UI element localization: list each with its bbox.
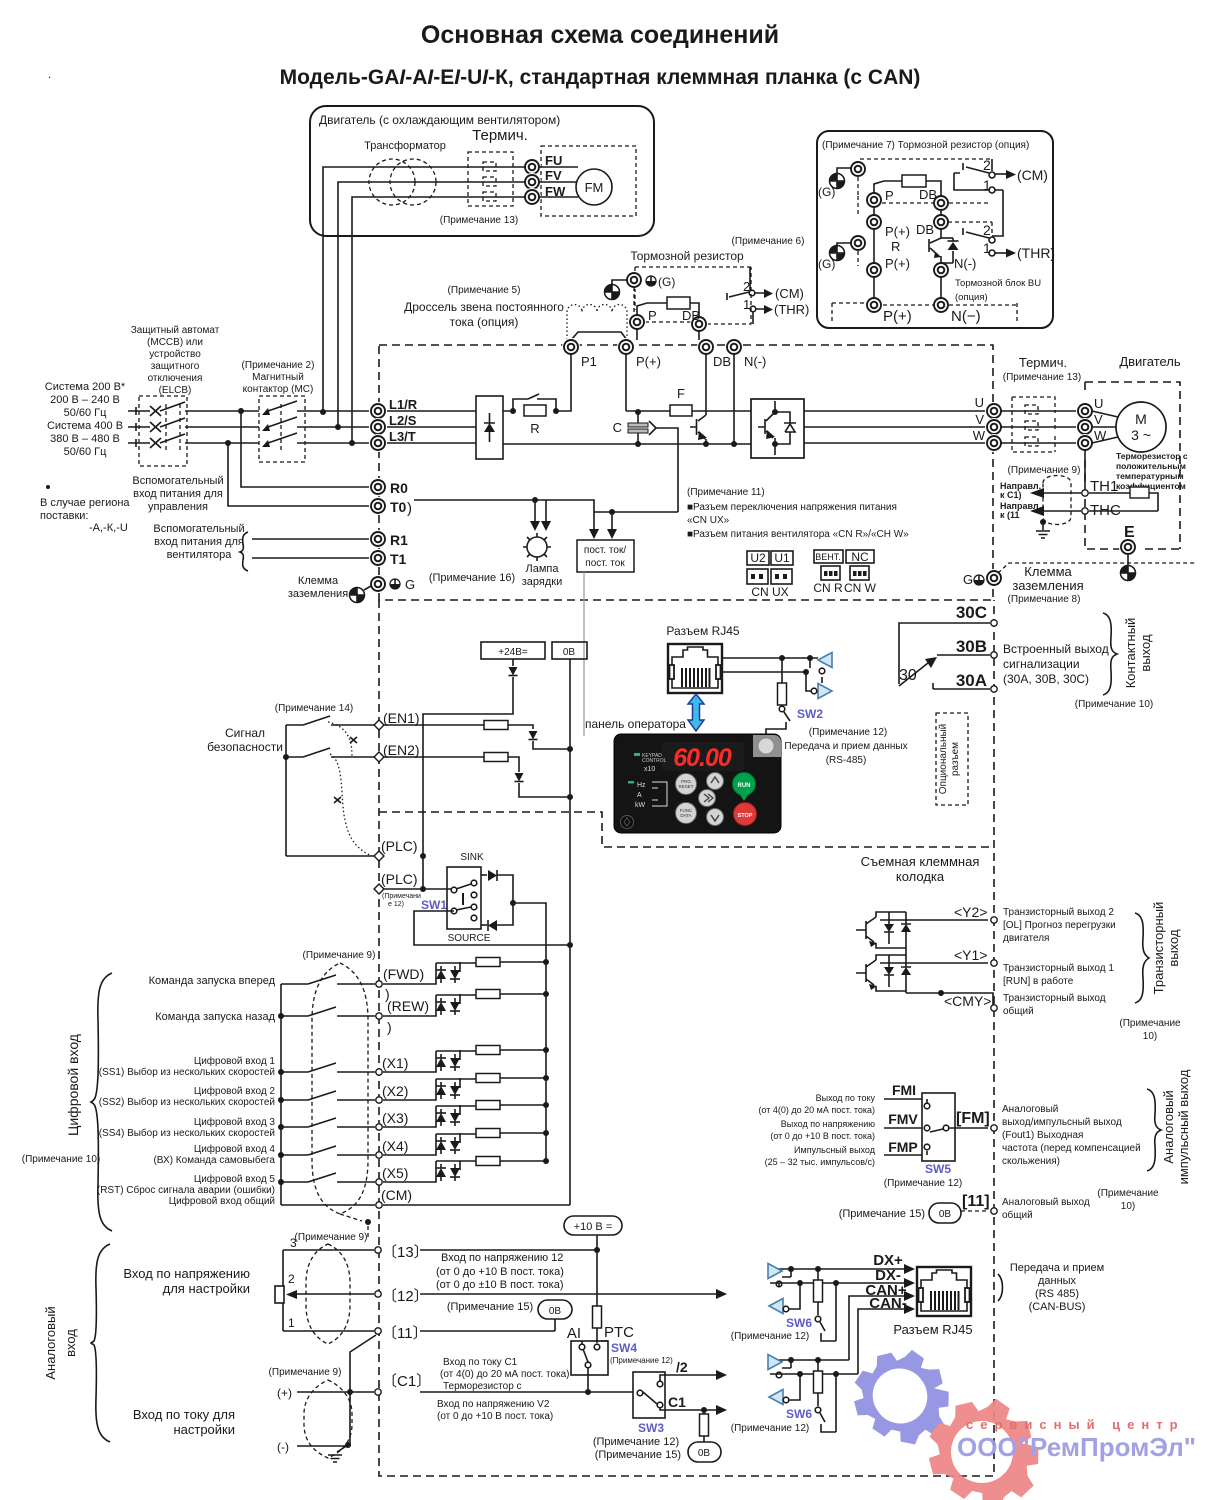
- svg-text:ВЕНТ.: ВЕНТ.: [815, 552, 841, 562]
- svg-text:Клемма: Клемма: [1024, 564, 1072, 579]
- top dashed bus: [860, 158, 990, 160]
- terminal P(+)a: [865, 213, 883, 231]
- svg-text:[FM]: [FM]: [956, 1110, 990, 1127]
- svg-text:сервисный центр: сервисный центр: [966, 1417, 1185, 1432]
- wire DX+: [770, 1264, 915, 1274]
- 0V rail: [569, 659, 571, 1205]
- FWD opto circuit: [383, 958, 549, 985]
- svg-text:10): 10): [1121, 1201, 1135, 1212]
- SW5 box: [884, 1093, 988, 1161]
- terminal CMY: [991, 1005, 997, 1011]
- terminal DB m: [690, 315, 708, 333]
- svg-text:Транзисторный выход 2: Транзисторный выход 2: [1003, 907, 1114, 918]
- RJ45 jack top: [668, 644, 722, 693]
- svg-text:(Примечание 9): (Примечание 9): [1008, 465, 1081, 476]
- terminal P m: [628, 313, 646, 331]
- SW6 group 1: [768, 1264, 836, 1342]
- label Цифровой вход 2: [99, 1085, 276, 1108]
- svg-text:50/60 Гц: 50/60 Гц: [64, 446, 108, 458]
- wire DX-: [770, 1278, 915, 1288]
- svg-text:пост. ток/: пост. ток/: [584, 545, 626, 556]
- inverter box: [751, 399, 804, 458]
- terminal P1: [562, 338, 580, 356]
- terminal PLC1: [374, 851, 384, 861]
- svg-text:T0: T0: [390, 499, 407, 515]
- brace transistor output: [1135, 913, 1149, 1003]
- svg-text:(X3): (X3): [382, 1110, 408, 1126]
- ground m: [605, 280, 628, 300]
- svg-text:SW1: SW1: [421, 898, 447, 912]
- asterisk mark: [46, 485, 50, 489]
- SINK/SOURCE switch SW1: [447, 852, 491, 944]
- svg-text:Лампа: Лампа: [526, 563, 560, 575]
- terminal FM: [991, 1125, 997, 1131]
- X1 opto circuit: [383, 1046, 549, 1073]
- svg-text:Встроенный выход: Встроенный выход: [1003, 642, 1109, 656]
- svg-text:(G): (G): [658, 275, 675, 289]
- 0V stadium FM: [929, 1203, 988, 1223]
- svg-text:(CAN-BUS): (CAN-BUS): [1029, 1301, 1086, 1313]
- svg-text:колодка: колодка: [896, 869, 945, 884]
- left texts FM: [758, 1093, 875, 1167]
- rectifier box: [476, 396, 503, 459]
- svg-text:P(+): P(+): [885, 224, 910, 239]
- svg-text:(Примечание 6): (Примечание 6): [732, 236, 805, 247]
- svg-text:FMI: FMI: [892, 1082, 916, 1098]
- svg-text:V: V: [975, 412, 984, 427]
- svg-text:импульсный выход: импульсный выход: [1176, 1069, 1191, 1184]
- connector CN R sockets: [813, 566, 843, 595]
- optional connector dashed box: [936, 713, 968, 805]
- svg-text:Основная схема соединений: Основная схема соединений: [421, 21, 779, 49]
- svg-text:Модель-GAI-АI-ЕI-UI-К, стандар: Модель-GAI-АI-ЕI-UI-К, стандартная клемм…: [280, 66, 921, 89]
- wires brake option drops: [637, 329, 699, 340]
- terminal P(+)b: [865, 261, 883, 279]
- relay 30: [899, 623, 990, 689]
- svg-text:(SS2) Выбор из нескольких скор: (SS2) Выбор из нескольких скоростей: [99, 1096, 275, 1108]
- svg-text:〔11〕: 〔11〕: [382, 1325, 428, 1342]
- potentiometer: [275, 1250, 374, 1331]
- transistor BU chopper: [929, 229, 941, 263]
- wire W2 down to TH: [1084, 450, 1086, 486]
- note под PLC: [382, 893, 421, 908]
- label Аналоговый импульсный выход vertical: [1161, 1069, 1191, 1184]
- svg-text:PTC: PTC: [604, 1324, 634, 1341]
- svg-text:поставки:: поставки:: [40, 510, 88, 522]
- label Вход по току C1: [440, 1357, 570, 1392]
- terminal PLC2: [374, 884, 384, 894]
- svg-text:В случае региона: В случае региона: [40, 497, 130, 509]
- label Y1 function: [1003, 963, 1114, 987]
- wire P to P(+)a: [874, 207, 941, 215]
- svg-text:(Примечание 9): (Примечание 9): [295, 1232, 368, 1243]
- svg-text:(RS-485): (RS-485): [826, 755, 867, 766]
- terminal U2: [1076, 402, 1094, 420]
- SW6 group 2: [768, 1355, 858, 1433]
- svg-text:частота (перед компенсацией: частота (перед компенсацией: [1002, 1143, 1141, 1154]
- dashed bus P-DB: [882, 202, 991, 204]
- terminal N(-) bottom: [932, 296, 950, 314]
- svg-text:G: G: [405, 577, 415, 592]
- svg-text:Магнитный: Магнитный: [252, 372, 304, 383]
- svg-text:(от 0 до +10 В пост. тока): (от 0 до +10 В пост. тока): [436, 1266, 564, 1278]
- X5 opto circuit: [383, 1157, 549, 1183]
- svg-text:380 В – 480 В: 380 В – 480 В: [50, 433, 120, 445]
- svg-text:Передача и прием данных: Передача и прием данных: [784, 741, 907, 752]
- safety switches: [283, 716, 375, 856]
- DC bus top: [503, 410, 751, 412]
- svg-text:kW: kW: [635, 802, 646, 809]
- dashed link2: [857, 196, 859, 266]
- thermal relay right dashed: [1012, 397, 1055, 452]
- svg-text:Цифровой вход общий: Цифровой вход общий: [169, 1195, 275, 1207]
- svg-text:-А,-К,-U: -А,-К,-U: [89, 522, 128, 534]
- transformer T (two dashed circles): [369, 159, 436, 205]
- terminal X5: [278, 1165, 408, 1185]
- svg-text:Цифровой вход: Цифровой вход: [65, 1034, 81, 1136]
- svg-text:F: F: [677, 386, 685, 401]
- svg-text:DB: DB: [713, 354, 731, 369]
- R bypass resistor: [510, 394, 559, 436]
- terminal 30A: [991, 686, 997, 692]
- EN2 input circuit: [383, 753, 573, 801]
- svg-text:L1/R: L1/R: [389, 397, 418, 412]
- svg-text:Транзисторный выход: Транзисторный выход: [1003, 993, 1106, 1004]
- label Защитный автомат MCCB: [131, 325, 220, 396]
- svg-text:Тормозной блок BU: Тормозной блок BU: [955, 278, 1041, 289]
- note (Примечание 10) transistor: [1119, 1018, 1181, 1042]
- shield drain analog: [328, 1335, 376, 1462]
- switch 2/1 upper (CM): [963, 157, 1048, 183]
- svg-text:(X2): (X2): [382, 1083, 408, 1099]
- svg-text:0В: 0В: [698, 1448, 711, 1459]
- terminal 30C: [991, 620, 997, 626]
- svg-text:(G): (G): [818, 257, 835, 271]
- svg-text:Транзисторный выход 1: Транзисторный выход 1: [1003, 963, 1114, 974]
- svg-text:общий: общий: [1002, 1209, 1033, 1221]
- svg-text:к (11: к (11: [1000, 510, 1020, 520]
- svg-text:30: 30: [899, 667, 917, 684]
- svg-text:3: 3: [290, 1236, 297, 1250]
- svg-text:1: 1: [743, 297, 750, 312]
- label Транзисторный выход vertical: [1151, 902, 1181, 995]
- svg-text:N(-): N(-): [744, 354, 766, 369]
- svg-text:2: 2: [983, 222, 991, 238]
- svg-text:1: 1: [288, 1316, 295, 1330]
- svg-text:DATA: DATA: [680, 813, 691, 818]
- svg-text:(ВХ) Команда самовыбега: (ВХ) Команда самовыбега: [153, 1154, 275, 1166]
- svg-text:Аналоговый выход: Аналоговый выход: [1002, 1197, 1090, 1208]
- choke coil dotted: [567, 305, 627, 340]
- label Вход по напряжению для настройки: [123, 1266, 250, 1296]
- svg-text:200 В – 240 В: 200 В – 240 В: [50, 394, 120, 406]
- svg-text:FMV: FMV: [888, 1111, 918, 1127]
- dashed drop from Gm: [633, 287, 635, 315]
- terminal E: [1119, 524, 1137, 581]
- connector NC: [846, 550, 874, 564]
- svg-text:0В: 0В: [563, 647, 576, 658]
- svg-text:RUN: RUN: [738, 783, 751, 789]
- svg-text:(Примечание 9): (Примечание 9): [269, 1367, 342, 1378]
- PLC wiring: [286, 853, 451, 892]
- label Вход по напряжению V2: [437, 1399, 553, 1422]
- svg-text:(CM): (CM): [775, 286, 804, 301]
- svg-text:Вход по току для: Вход по току для: [133, 1407, 235, 1422]
- svg-text:L3/T: L3/T: [389, 429, 416, 444]
- aux power wires to R0 T0: [228, 411, 369, 506]
- svg-text:коэффициентом: коэффициентом: [1116, 481, 1186, 491]
- label Система 200 В: [45, 381, 126, 458]
- svg-text:температурным: температурным: [1116, 471, 1184, 481]
- label thermistor: [1116, 451, 1188, 491]
- label Цифровой вход 4: [153, 1143, 275, 1166]
- terminal T0: [369, 497, 387, 515]
- terminal X2: [278, 1083, 408, 1103]
- input wires L3 row: [128, 433, 369, 448]
- P1 drop: [556, 354, 571, 411]
- svg-text:настройки: настройки: [173, 1422, 235, 1437]
- svg-text:Терморезистор с: Терморезистор с: [443, 1381, 522, 1392]
- 0V stadium 12: [538, 1300, 572, 1331]
- svg-text:M: M: [1135, 411, 1147, 427]
- svg-text:(THR): (THR): [1017, 245, 1055, 261]
- svg-text:(Примечание 12): (Примечание 12): [731, 1331, 809, 1342]
- terminal FWD: [281, 966, 424, 1002]
- svg-text:(Примечание 15): (Примечание 15): [839, 1208, 925, 1220]
- svg-text:(EN1): (EN1): [383, 710, 420, 726]
- terminal X3: [278, 1110, 408, 1130]
- MCCB dashed box: [139, 396, 187, 466]
- svg-text:(ELCB): (ELCB): [159, 385, 192, 396]
- DC/DC arrows: [589, 509, 617, 539]
- terminal DBa: [932, 213, 950, 231]
- svg-text:T1: T1: [390, 551, 407, 567]
- svg-text:〔13〕: 〔13〕: [382, 1244, 429, 1261]
- terminal FV: [523, 173, 541, 191]
- label Контактный выход vertical: [1123, 618, 1153, 689]
- svg-text:(Примечани: (Примечани: [382, 893, 421, 900]
- note (Примечание 10) analog out: [1097, 1188, 1159, 1212]
- svg-text:безопасности: безопасности: [207, 740, 283, 754]
- label Цифровой вход 3: [99, 1116, 276, 1139]
- svg-text:+10 В =: +10 В =: [574, 1221, 613, 1233]
- brace digital input: [91, 973, 112, 1231]
- brace contact output: [1103, 613, 1117, 695]
- svg-text:(Примечание 12): (Примечание 12): [731, 1423, 809, 1434]
- wires to R1 T1: [252, 539, 369, 558]
- svg-text:SW6: SW6: [786, 1407, 812, 1421]
- removable terminal block dashed boundary: [379, 812, 993, 847]
- svg-text:(от 0 до +10 В пост. тока): (от 0 до +10 В пост. тока): [770, 1131, 875, 1141]
- svg-text:DB: DB: [919, 187, 937, 202]
- svg-text:DB: DB: [682, 308, 700, 323]
- svg-text:L2/S: L2/S: [389, 413, 417, 428]
- label Передача и прием данных: [1010, 1262, 1104, 1313]
- svg-text:2: 2: [288, 1272, 295, 1286]
- svg-text:[OL] Прогноз перегрузки: [OL] Прогноз перегрузки: [1003, 920, 1116, 931]
- svg-text:[RUN] в работе: [RUN] в работе: [1003, 975, 1074, 987]
- svg-text:Аналоговый: Аналоговый: [43, 1306, 58, 1379]
- svg-text:30В: 30В: [956, 637, 987, 656]
- svg-text:R: R: [530, 421, 539, 436]
- svg-text:(Примечание 15): (Примечание 15): [447, 1301, 533, 1313]
- svg-text:вход питания для: вход питания для: [133, 488, 223, 500]
- svg-text:(Примечание 12): (Примечание 12): [809, 727, 887, 738]
- svg-text:(EN2): (EN2): [383, 742, 420, 758]
- svg-text:〔C1〕: 〔C1〕: [382, 1373, 431, 1390]
- arrows Направл: [1000, 481, 1081, 520]
- terminal R0: [369, 478, 387, 496]
- terminal X1: [278, 1055, 408, 1075]
- connector CN UX sockets: [747, 569, 792, 599]
- label FM function: [1002, 1104, 1141, 1167]
- terminal T1: [369, 549, 387, 567]
- label Сигнал безопасности: [207, 726, 283, 754]
- svg-text:SW5: SW5: [925, 1162, 951, 1176]
- svg-text:(Примечание: (Примечание: [1119, 1018, 1181, 1029]
- blue gear: [854, 1350, 949, 1445]
- svg-text:(от 4(0) до 20 мА пост. тока): (от 4(0) до 20 мА пост. тока): [440, 1369, 570, 1380]
- svg-text:Транзисторный: Транзисторный: [1151, 902, 1166, 995]
- SW4 box: [567, 1324, 634, 1392]
- ground terminal G right: [963, 569, 1003, 587]
- svg-text:): ): [387, 1019, 392, 1035]
- terminal TH1: [1082, 490, 1088, 496]
- svg-text:(RST) Сброс сигнала аварии (ош: (RST) Сброс сигнала аварии (ошибки): [97, 1184, 275, 1196]
- connector U2: [747, 551, 769, 565]
- wires fan feeders: [323, 167, 525, 443]
- svg-text:защитного: защитного: [151, 361, 200, 372]
- wire CAN+: [849, 1291, 915, 1360]
- wire 13 to +10V: [420, 1247, 600, 1253]
- dashed klemma line: [998, 563, 1195, 573]
- label Съемная клеммная колодка: [861, 854, 980, 884]
- svg-text:■Разъем питания вентилятора «C: ■Разъем питания вентилятора «CN R»/«CH W…: [687, 529, 909, 540]
- shield oval analog2: [304, 1380, 352, 1458]
- svg-text:P(+): P(+): [885, 256, 910, 271]
- svg-text:<CMY>: <CMY>: [944, 993, 991, 1009]
- wires fan to FM: [539, 167, 578, 197]
- svg-text:Аналоговый: Аналоговый: [1002, 1104, 1058, 1115]
- terminal FU: [523, 158, 541, 176]
- svg-text:Разъем RJ45: Разъем RJ45: [666, 624, 739, 638]
- RJ45 jack bottom: [917, 1267, 971, 1316]
- terminal L2/S: [369, 418, 387, 436]
- X4 opto circuit: [383, 1129, 549, 1156]
- label Магнитный контактор МС: [242, 360, 315, 395]
- svg-text:тока (опция): тока (опция): [450, 315, 519, 329]
- svg-text:вентилятора: вентилятора: [167, 549, 233, 561]
- terminal EN2: [374, 752, 384, 762]
- svg-text:50/60 Гц: 50/60 Гц: [64, 407, 108, 419]
- svg-text:Двигатель (с охлаждающим венти: Двигатель (с охлаждающим вентилятором): [319, 113, 560, 127]
- charge lamp arrows: [530, 497, 551, 531]
- svg-text:сигнализации: сигнализации: [1003, 657, 1080, 671]
- junction dots to fan feeders: [320, 409, 355, 446]
- svg-text:R1: R1: [390, 532, 408, 548]
- svg-text:(опция): (опция): [955, 292, 988, 303]
- svg-text:Цифровой вход 2: Цифровой вход 2: [194, 1085, 276, 1097]
- svg-text:FMP: FMP: [888, 1139, 918, 1155]
- motor dashed box: [1085, 382, 1180, 549]
- svg-text:SINK: SINK: [460, 852, 484, 863]
- svg-text:скольжения): скольжения): [1002, 1156, 1060, 1167]
- svg-text:(CM): (CM): [381, 1187, 412, 1203]
- svg-text:Передача и прием: Передача и прием: [1010, 1262, 1104, 1274]
- fan motor FM: [576, 169, 612, 205]
- svg-text:(Примечание 11): (Примечание 11): [687, 487, 765, 498]
- svg-text:<Y1>: <Y1>: [954, 947, 987, 963]
- svg-text:C: C: [613, 420, 622, 435]
- resistor m: [637, 297, 699, 317]
- wires into rectifier: [387, 411, 476, 443]
- terminal 13: [375, 1247, 381, 1253]
- svg-text:P1: P1: [581, 354, 597, 369]
- left switch bus: [280, 984, 282, 1205]
- terminal V2: [1076, 418, 1094, 436]
- label Аналоговый вход vertical: [43, 1306, 78, 1379]
- terminal W: [985, 434, 1003, 452]
- shield oval analog1: [306, 1244, 350, 1344]
- REW opto circuit: [383, 990, 549, 1017]
- svg-text:(Примечание 13): (Примечание 13): [440, 215, 518, 226]
- svg-text:30А: 30А: [956, 671, 987, 690]
- transistor group Y2: [856, 912, 988, 948]
- svg-text:3 ~: 3 ~: [1131, 427, 1151, 443]
- svg-text:Опциональный: Опциональный: [938, 724, 949, 795]
- svg-text:[11]: [11]: [962, 1193, 990, 1210]
- svg-text:AI: AI: [567, 1325, 581, 1342]
- dashed link: [857, 177, 859, 196]
- svg-text:(THR): (THR): [774, 302, 809, 317]
- MCCB linkage dashes: [166, 404, 180, 452]
- svg-text:SW3: SW3: [638, 1421, 664, 1435]
- svg-text:2: 2: [983, 157, 991, 173]
- label Вспомогательный вход питания для управления: [132, 475, 223, 513]
- diode from +24V: [423, 659, 518, 889]
- terminal 12: [375, 1291, 381, 1297]
- svg-text:Выход по напряжению: Выход по напряжению: [781, 1119, 875, 1129]
- red gear: [929, 1399, 1039, 1500]
- svg-text:Вход по напряжению V2: Вход по напряжению V2: [437, 1399, 550, 1410]
- svg-text:Вход по напряжению 12: Вход по напряжению 12: [441, 1252, 563, 1264]
- svg-text:Термич.: Термич.: [1019, 355, 1067, 370]
- motor M 3~: [1092, 402, 1166, 452]
- svg-text:зарядки: зарядки: [522, 576, 563, 588]
- EN1 input circuit: [383, 721, 573, 753]
- svg-text:устройство: устройство: [149, 349, 201, 360]
- terminal DB: [932, 194, 950, 212]
- svg-text:двигателя: двигателя: [1003, 933, 1049, 944]
- SW1 diodes and source path: [414, 870, 573, 962]
- svg-text:A: A: [637, 792, 642, 799]
- svg-text:(Примечание 14): (Примечание 14): [275, 703, 353, 714]
- svg-text:С1: С1: [668, 1394, 686, 1410]
- CMY wire: [906, 987, 993, 1005]
- terminal EN1: [374, 720, 384, 730]
- svg-text:30С: 30С: [956, 603, 987, 622]
- svg-text:FV: FV: [545, 168, 562, 183]
- svg-text:SOURCE: SOURCE: [448, 933, 491, 944]
- wire C1 main: [420, 1389, 633, 1395]
- terminal L1/R: [369, 402, 387, 420]
- terminal C1: [375, 1389, 381, 1395]
- svg-text:(Примечание 10): (Примечание 10): [22, 1154, 100, 1165]
- terminal N(-) main: [725, 338, 743, 356]
- svg-text:Команда запуска назад: Команда запуска назад: [155, 1011, 275, 1023]
- terminal N(-): [932, 261, 950, 279]
- terminal L3/T: [369, 434, 387, 452]
